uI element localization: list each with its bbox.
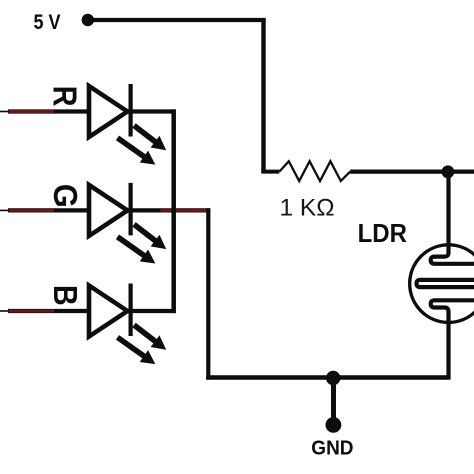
wire ground rail horizontal [206,375,448,380]
LDR body circle [410,245,474,323]
wire LED R cathode to bus [131,109,176,113]
LED G light arrow upper [134,224,166,249]
wire LED G cathode to right corner [131,208,211,212]
LED B light arrow lower [118,337,156,364]
node ground junction dot [326,371,340,385]
svg-text:5 V: 5 V [34,11,61,34]
LED G light arrow lower [118,237,156,264]
wire LDR top lead [446,172,450,254]
wire LED B red segment [9,310,54,313]
wire LED G anode black under-wire [8,208,91,212]
wire resistor right lead to LDR node [350,170,474,174]
LED D3 (B) [0,284,176,365]
LDR serpentine resistive element [417,245,474,322]
wire 5V rail vertical down to resistor [261,20,265,172]
LED D1 (R) [0,84,176,165]
wire LED R red segment [9,110,54,113]
wire LED G red segment [9,209,54,212]
LED R triangle [89,86,128,137]
svg-text:B: B [46,285,84,306]
svg-text:LDR: LDR [358,220,408,248]
LED R cathode bar [129,84,133,137]
wire LED B anode black under-wire [8,309,91,313]
wire LED G pin lead thin [0,209,9,211]
wire right vertical from G row down to ground rail [206,208,210,379]
wire LED G red segment right of bus [160,209,206,212]
wire LED R anode black under-wire [8,109,91,113]
LED R light arrow upper [134,126,166,151]
svg-text:G: G [47,184,84,208]
wire ground stub [331,378,336,425]
wire LED B pin lead thin [0,310,9,312]
LED G triangle [89,185,128,236]
wire LED cathode bus vertical [171,109,176,313]
wire LED R pin lead thin [0,111,9,113]
LED R light arrow lower [118,138,156,165]
wire LED B cathode to bus [131,309,176,313]
svg-text:1 KΩ: 1 KΩ [280,194,335,221]
svg-text:GND: GND [311,437,353,459]
wire resistor left lead [261,170,279,174]
node 5V supply dot [82,14,94,26]
LED B light arrow upper [134,325,166,350]
LED B triangle [89,286,128,337]
node ground terminal dot [326,417,342,433]
wire LDR bottom lead [446,320,450,380]
LED G cathode bar [129,183,133,236]
node resistor-LDR junction dot [442,165,455,178]
LED D2 (G) [0,183,210,264]
wire 5V rail horizontal [88,18,266,22]
LED B cathode bar [129,284,133,337]
resistor R1 zigzag body [279,161,350,181]
svg-text:R: R [46,86,84,107]
